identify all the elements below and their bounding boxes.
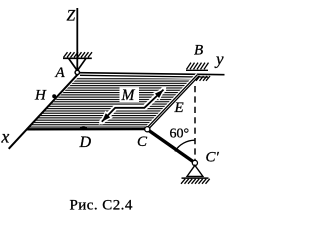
z axis [76,8,78,70]
plate right edge double line B-C [148,76,199,130]
plate bottom edge [27,128,148,130]
point D tick [80,126,87,130]
rod C-C' [148,130,195,163]
dashed vertical line [194,86,196,160]
couple M arrow [102,90,164,122]
white halo under right edge [147,75,198,129]
couple M white halo [102,90,164,122]
plate hatching [20,76,210,129]
pin circle at C' [192,160,197,165]
plate top edge / y axis line [80,73,225,75]
ground hatching at C' [181,179,210,184]
svg-text:A: A [55,65,66,81]
ground line at C' [182,177,209,179]
label M box [120,88,140,103]
ceiling hatching at B [187,63,209,70]
wall hatches below line at B [196,76,210,81]
svg-text:B: B [194,43,203,59]
ceiling hatching at A [64,52,93,57]
svg-text:M: M [121,87,136,104]
angle arc 60 [175,140,195,151]
svg-text:C′: C′ [206,150,220,166]
plate left edge / x axis line [9,74,78,149]
pin circle at C [145,127,150,132]
svg-text:E: E [174,100,184,116]
ceiling line at A [63,57,92,59]
support triangle at A [69,58,87,70]
svg-text:D: D [79,134,92,151]
point H dot [52,94,56,98]
support triangle at C' [187,165,203,176]
svg-text:60°: 60° [170,126,190,141]
svg-text:Рис. С2.4: Рис. С2.4 [70,198,133,214]
svg-text:C: C [137,134,148,150]
ceiling underline at B [186,69,208,71]
svg-text:y: y [214,50,224,69]
svg-text:H: H [34,88,47,104]
pin circle at A [75,70,79,74]
arrowhead SW [102,113,110,122]
svg-text:x: x [1,127,10,147]
svg-text:Z: Z [67,8,76,25]
arrowhead NE [155,90,164,98]
